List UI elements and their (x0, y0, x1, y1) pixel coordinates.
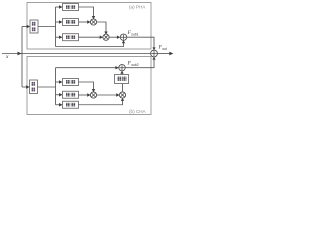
arrow into final adder bottom (152, 57, 155, 60)
block b1' (filter 1, bottom) (63, 79, 79, 86)
wire E up into B' bottom (121, 72, 123, 74)
wire final output (157, 53, 170, 55)
wire fan vertical (bottom) (55, 68, 57, 105)
arrow into A top (104, 32, 107, 35)
block E (extra block, bottom) (115, 75, 129, 84)
wire T2 out to fan (bottom) (38, 86, 56, 88)
svg-text:sub2: sub2 (131, 63, 138, 67)
wire bypass (top): fan bottom right then up into B (56, 42, 124, 47)
arrow into A' bottom (121, 98, 124, 101)
arrow into S1' top (92, 89, 95, 92)
outer box (a) PHA subsystem (27, 3, 151, 50)
arrow into b1' (59, 80, 63, 83)
block b3' (filter 3, bottom) (63, 101, 79, 108)
wire T1 out to fan (38, 26, 56, 28)
wire fan stub row3 (56, 36, 61, 38)
wire fan stub row3 (bottom) (56, 104, 61, 106)
wire S1 out, corner down into A (97, 22, 106, 33)
arrow into B' bottom (120, 71, 123, 74)
arrow into B' left (115, 66, 118, 69)
block T2 (tall input block, bottom) (30, 80, 38, 94)
outer box (b) CHA subsystem (27, 57, 151, 115)
arrow into B left (117, 36, 120, 39)
block T1 (tall input block, top) (30, 20, 38, 33)
summer B (top, circle-plus) (120, 34, 126, 40)
wire input bus vertical (21, 27, 23, 88)
label F_sub2 (127, 61, 139, 67)
block b1 (filter 1, top) (63, 4, 79, 11)
wire A out to B (109, 36, 119, 38)
arrow on input wire (18, 52, 22, 56)
arrow into T2 (26, 85, 30, 88)
arrow into b3' (59, 103, 63, 106)
wire bus to block T1 (22, 26, 28, 28)
summer S1' (bottom, circle-x) (90, 92, 96, 98)
arrow into A' left (116, 93, 119, 96)
wire b3' out, corner up into A' bottom (79, 99, 123, 104)
summer S1 (top, circle-x) (90, 19, 96, 25)
wire b2' out to S1' (79, 94, 90, 96)
arrow into b2 (59, 20, 63, 23)
arrow into S1' left (87, 93, 90, 96)
label F_out (158, 45, 168, 51)
final adder (circle-plus) (151, 50, 158, 57)
wire fan stub row1 (bottom) (56, 81, 61, 83)
wire S1' out to A' (97, 94, 118, 96)
block b3 (filter 3, top) (63, 34, 79, 41)
wire fan stub row2 (56, 21, 61, 23)
wire b2 out to S1 (79, 21, 90, 23)
summer B' (bottom, circle-plus) (119, 65, 125, 71)
arrow into A left (100, 36, 103, 39)
block b2' (filter 2, bottom) (63, 91, 79, 98)
arrow into S1 top (92, 16, 95, 19)
wire fan vertical (top) (55, 7, 57, 47)
wire A' up into block E (122, 84, 124, 92)
wire B out to final adder (right then down) (127, 37, 154, 49)
arrow into b3 (59, 36, 63, 39)
block b2 (filter 2, top) (63, 19, 79, 26)
wire B' out to final adder (right then up) (125, 58, 154, 67)
wire input x horizontal to final adder (2, 53, 150, 55)
arrow into T1 (27, 25, 31, 28)
wire b1' out, corner down into S1' (79, 82, 94, 91)
svg-text:sub1: sub1 (131, 32, 138, 36)
arrow output (169, 52, 173, 56)
svg-text:(b) CHA: (b) CHA (129, 109, 147, 114)
label F_sub1 (127, 30, 139, 36)
arrow into b2' (59, 93, 63, 96)
arrow into S1 left (87, 20, 90, 23)
svg-text:out: out (162, 47, 167, 51)
summer A' (bottom, circle-x) (119, 92, 125, 98)
wire fan stub row2 (bottom) (56, 94, 61, 96)
summer A (top, circle-x) (103, 34, 109, 40)
arrow into b1 (59, 5, 63, 8)
arrow into B bottom (122, 40, 125, 43)
wire bypass (bottom): fan top right into B' left (56, 67, 118, 69)
wire fan stub row1 (56, 6, 61, 8)
wire bus to block T2 (22, 86, 27, 88)
arrow into final adder top (152, 47, 155, 50)
svg-text:x: x (5, 54, 9, 60)
wire b3 out to A (79, 36, 102, 38)
wire b1 out, corner down into S1 (79, 7, 94, 18)
svg-text:(a) PHA: (a) PHA (129, 5, 146, 10)
